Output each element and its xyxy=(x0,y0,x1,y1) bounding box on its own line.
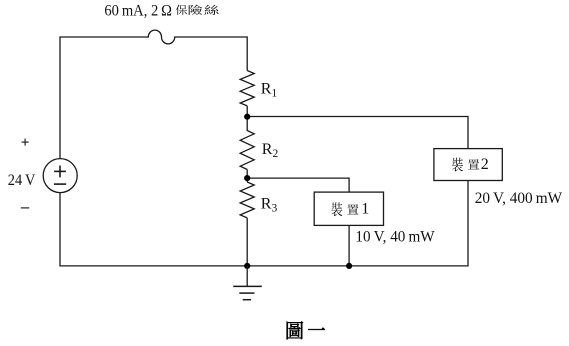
voltage source V1 (24 V battery circle) xyxy=(43,159,77,193)
resistor R3 xyxy=(240,182,254,218)
svg-text:20 V, 400 mW: 20 V, 400 mW xyxy=(475,190,563,207)
svg-text:60 mA, 2 Ω: 60 mA, 2 Ω xyxy=(104,2,172,19)
svg-text:2: 2 xyxy=(481,156,489,173)
wire: left rail and top wire with fuse (source top, up, right to R1 top) xyxy=(60,30,247,159)
resistor R2 xyxy=(240,131,254,170)
polarity mark: - (outside, below source) xyxy=(21,207,29,209)
fuse value label: 60 mA, 2 Ω 保險絲 xyxy=(104,2,218,19)
svg-text:R1: R1 xyxy=(261,80,278,99)
wire: device 1 box bottom to bottom rail xyxy=(348,225,350,266)
node: ground junction dot on bottom rail xyxy=(244,263,250,269)
label 裝置2 xyxy=(452,156,489,173)
device box U1 裝置1 xyxy=(314,192,383,225)
caption: 圖一 (Figure 1) xyxy=(287,321,325,339)
node: device 1 junction dot on bottom rail xyxy=(346,263,352,269)
svg-text:24 V: 24 V xyxy=(8,172,36,189)
wire: node A to R2 top xyxy=(246,117,248,131)
wire: R2 bottom to node B xyxy=(246,170,248,179)
wire: node B branch right and down to device 1 box top xyxy=(247,178,349,192)
ground symbol xyxy=(233,266,262,300)
wire: bottom rail (device 2 drop bottom, left along bottom, up to source bottom) xyxy=(60,181,468,266)
node B junction dot (R2/R3/device1 branch) xyxy=(244,175,250,181)
wire: device 2 drop (branch corner down to device 2 box top) xyxy=(247,117,468,149)
node A junction dot (R1/R2/device2 branch) xyxy=(244,114,250,120)
wire: node B to R3 top xyxy=(246,178,248,182)
svg-text:R3: R3 xyxy=(261,195,278,214)
svg-text:1: 1 xyxy=(361,201,369,218)
wire: R1 bottom to node A xyxy=(246,106,248,117)
resistor R1 xyxy=(240,71,254,106)
device box U2 裝置2 xyxy=(434,149,502,181)
wire: R3 bottom to bottom rail xyxy=(246,218,248,266)
svg-text:R2: R2 xyxy=(262,141,279,160)
label 裝置1 xyxy=(331,201,369,218)
polarity mark: + (outside, above source) xyxy=(22,139,29,146)
svg-text:10 V, 40 mW: 10 V, 40 mW xyxy=(355,228,434,245)
